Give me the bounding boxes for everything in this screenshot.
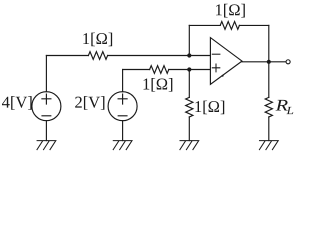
- label R1 value 1[ohm]: [83, 33, 112, 47]
- V1 minus sign: [42, 115, 51, 117]
- wire feedback right vertical to output node: [268, 25, 270, 61]
- op-amp U1 triangle: [210, 38, 242, 85]
- wire op-amp output: [242, 61, 286, 63]
- wire feedback left vertical: [188, 25, 190, 55]
- stray dot on op-amp lower edge: [222, 75, 224, 77]
- wire feedback top right segment: [239, 24, 268, 26]
- wire V2 bottom to ground: [122, 121, 124, 141]
- V2 plus sign: [118, 94, 127, 104]
- label R4 value 1[ohm]: [195, 101, 224, 115]
- wire non-inverting node down to R4: [188, 70, 190, 98]
- wire from R1 to inverting node: [108, 55, 211, 57]
- wire top row: V1 node to op-amp inverting input: [46, 55, 88, 57]
- resistor R3 feedback 1[ohm]: [220, 22, 239, 30]
- label RL subscript L: [286, 107, 293, 114]
- ground under R4: [180, 141, 199, 150]
- resistor R1 1[ohm] series with 4V: [88, 52, 107, 60]
- wire second row: V2 node to op-amp non-inverting input: [123, 69, 150, 71]
- node junction dot non-inverting input: [187, 67, 191, 71]
- label R2 value 1[ohm]: [144, 78, 173, 92]
- wire RL bottom to ground: [268, 117, 270, 141]
- node junction dot inverting input: [187, 53, 191, 57]
- node junction dot output: [267, 60, 271, 64]
- ground under V1: [37, 141, 56, 150]
- voltage source V2 2V circle: [108, 92, 137, 121]
- op-amp minus sign: [212, 53, 220, 55]
- op-amp plus sign: [212, 64, 220, 72]
- label R3 value 1[ohm]: [216, 4, 245, 18]
- wire V1 bottom to ground: [45, 121, 47, 141]
- voltage source V1 4V circle: [32, 92, 61, 121]
- resistor R2 1[ohm] series with 2V: [150, 66, 169, 74]
- label RL letter R: [276, 100, 288, 111]
- ground under RL: [259, 141, 278, 150]
- label V1 value 4[V]: [2, 96, 32, 110]
- V2 minus sign: [118, 115, 127, 117]
- resistor R4 1[ohm] to ground: [186, 97, 193, 117]
- wire from R2 to non-inverting node: [169, 69, 211, 71]
- label V2 value 2[V]: [75, 96, 104, 110]
- wire riser from 2V source: [122, 70, 124, 92]
- wire from output node down to RL: [268, 62, 270, 98]
- ground under V2: [113, 141, 132, 150]
- V1 plus sign: [42, 94, 51, 104]
- wire R4 bottom to ground: [188, 117, 190, 141]
- resistor RL vertical: [265, 97, 272, 117]
- wire feedback top left segment: [189, 24, 220, 26]
- output terminal open circle: [286, 60, 290, 64]
- wire riser from 4V source: [45, 56, 47, 92]
